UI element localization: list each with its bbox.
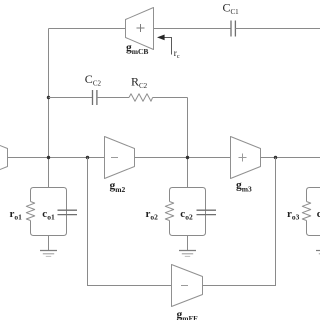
wire top from gmCB input to CC1: [154, 28, 232, 30]
capacitor co1: [42, 208, 77, 222]
svg-text:gmFF: gmFF: [177, 309, 199, 320]
op-amp gmCB (current buffer, points left): [126, 8, 154, 57]
node 1 junction: [47, 156, 50, 159]
svg-text:co2: co2: [180, 208, 193, 222]
svg-text:gm3: gm3: [236, 180, 252, 194]
svg-text:CC1: CC1: [223, 1, 240, 17]
svg-text:ro3: ro3: [287, 208, 300, 222]
wire main gm3 to right edge: [261, 157, 320, 159]
resistor ro3: [287, 202, 311, 222]
svg-text:ro1: ro1: [10, 208, 23, 222]
arrow rc into gmCB: [157, 35, 180, 61]
svg-text:gmCB: gmCB: [126, 42, 148, 56]
wire top from node1 corner to gmCB output: [49, 28, 126, 30]
wire vertical node1 from top wire to tank1: [48, 29, 50, 188]
wire CC2 branch left: [49, 97, 93, 99]
wire main gm1 to gm2: [8, 157, 105, 159]
wire tank1 to ground: [48, 236, 50, 251]
capacitor CC2: [85, 72, 102, 105]
svg-text:gm2: gm2: [110, 180, 126, 194]
capacitor co3 label (clipped): [317, 208, 320, 220]
wire vertical node2 from RC2 branch down to tank2: [187, 98, 189, 188]
op-amp gm2: [105, 137, 135, 194]
wire tank2 to ground: [187, 236, 189, 251]
tank 3 box ro3 co3 (clipped at right edge): [307, 188, 320, 236]
wire CC2 to RC2: [97, 97, 129, 99]
node junction feedforward tap: [86, 156, 89, 159]
svg-text:RC2: RC2: [131, 75, 148, 91]
resistor ro1: [10, 202, 35, 222]
wire main gm2 to gm3: [135, 157, 231, 159]
resistor RC2: [129, 75, 153, 102]
ground tank3 (clipped): [316, 251, 320, 254]
ground tank1: [40, 251, 57, 257]
op-amp gmFF: [172, 265, 203, 320]
svg-text:rc: rc: [174, 48, 180, 60]
tank 1 box ro1 co1: [31, 188, 67, 236]
svg-text:ro2: ro2: [146, 208, 159, 222]
wire gmFF output up to node 3: [203, 158, 276, 286]
wire RC2 to node2 vertical: [153, 97, 188, 99]
node 3 junction: [274, 156, 277, 159]
svg-text:co1: co1: [42, 208, 55, 222]
op-amp gm1 (partial at left edge): [0, 137, 8, 179]
node 2 junction: [186, 156, 189, 159]
capacitor co2: [180, 208, 216, 222]
resistor ro2: [146, 202, 174, 222]
wire top from CC1 to right edge: [235, 28, 320, 30]
capacitor CC1: [223, 1, 240, 37]
node junction CC2 branch: [47, 96, 50, 99]
svg-text:CC2: CC2: [85, 72, 102, 88]
tank 2 box ro2 co2: [170, 188, 206, 236]
wire feedforward tap down and to gmFF input: [88, 158, 172, 286]
op-amp gm3: [231, 137, 261, 194]
ground tank2: [179, 251, 196, 257]
